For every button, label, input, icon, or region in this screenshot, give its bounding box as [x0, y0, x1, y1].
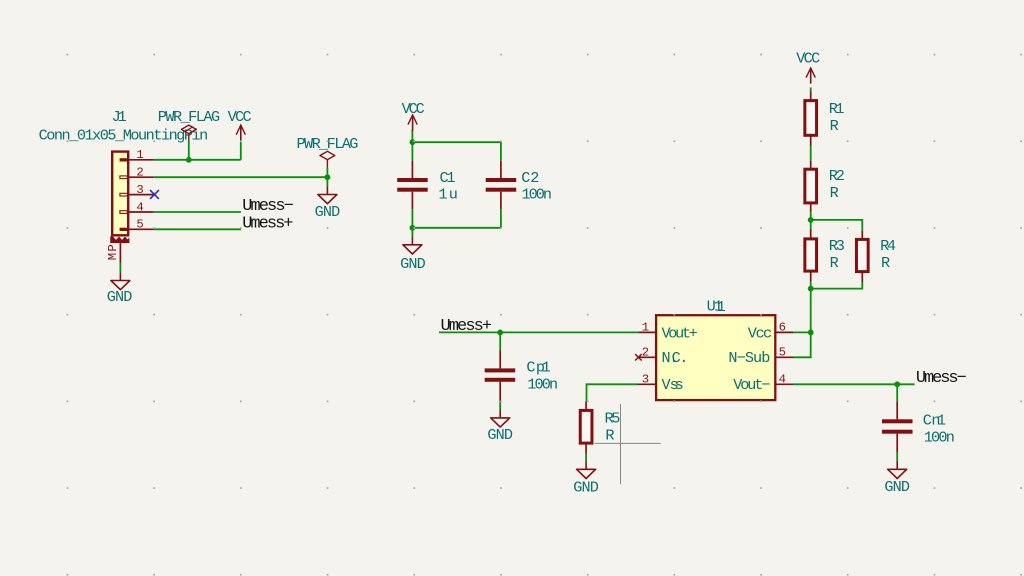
wire J1 pin2 to PWR_FLAG/GND node — [154, 176, 328, 178]
wire J1 pin4 to Umess- label — [154, 211, 241, 213]
wire R5 bottom to GND — [585, 454, 587, 461]
node GND / C1 / C2 — [410, 225, 416, 231]
svg-text:N.C.: N.C. — [662, 349, 689, 367]
capacitor C2 — [486, 161, 517, 209]
J1 pin 3 — [120, 193, 154, 196]
svg-text:VCC: VCC — [402, 100, 425, 118]
svg-text:Umess+: Umess+ — [441, 317, 493, 336]
U1 pin 4 — [775, 373, 793, 387]
J1 pin 1 — [120, 158, 154, 161]
ground under J1 — [111, 272, 130, 290]
svg-text:GND: GND — [315, 203, 341, 221]
node Umess+ / Cp1 — [497, 330, 503, 336]
J1 pin 5 — [120, 228, 154, 231]
svg-text:1: 1 — [136, 148, 143, 162]
power flag PWR_FLAG at J1 pin1 — [181, 125, 196, 141]
ground under Cp1 — [491, 410, 510, 428]
wire C1 top to C2 top — [412, 142, 501, 161]
resistor R4 — [856, 231, 868, 282]
wire Umess+ to U1 pin1 — [439, 331, 639, 333]
svg-text:R1: R1 — [829, 100, 845, 118]
wire Cn1 bottom to GND — [896, 452, 898, 461]
svg-text:R: R — [881, 254, 890, 272]
wire J1 pin5 to Umess+ label — [154, 228, 241, 230]
power symbol VCC — [408, 115, 417, 131]
U1 pin 3 — [638, 373, 657, 387]
svg-text:6: 6 — [779, 321, 786, 335]
capacitor Cp1 — [485, 350, 516, 401]
wire U1 pin4 to Umess- label — [793, 383, 915, 385]
svg-text:Vout−: Vout− — [733, 376, 770, 394]
resistor R1 — [805, 92, 817, 146]
node Umess- / Cn1 — [894, 381, 900, 387]
svg-text:R4: R4 — [880, 237, 896, 255]
wire R3 bottom down to U1 pin6 node — [810, 282, 812, 333]
svg-text:GND: GND — [573, 479, 599, 497]
wire Cp1 bottom to GND — [499, 401, 501, 410]
wire C1 bottom to GND — [411, 209, 413, 236]
node J1 pin1 / PWR_FLAG — [186, 157, 192, 163]
svg-text:C2: C2 — [521, 169, 539, 187]
node VCC / C1 / C2 — [410, 139, 416, 145]
svg-text:3: 3 — [642, 373, 649, 387]
svg-text:100n: 100n — [527, 376, 558, 394]
capacitor Cn1 — [882, 402, 913, 453]
node U1 pin6 / pin5 — [808, 330, 814, 336]
J1 pin 4 — [120, 211, 154, 214]
U1 pin 6 — [775, 321, 793, 335]
wire C1 bottom to C2 bottom — [412, 209, 501, 228]
svg-text:Umess−: Umess− — [242, 197, 294, 216]
svg-text:R: R — [830, 184, 839, 202]
svg-text:VCC: VCC — [796, 49, 820, 67]
svg-text:PWR_FLAG: PWR_FLAG — [158, 108, 220, 126]
svg-text:2: 2 — [136, 166, 143, 180]
ground under C1 — [403, 236, 422, 254]
svg-text:1u: 1u — [438, 186, 457, 204]
node R3 / R4 bottom — [808, 286, 814, 292]
svg-text:J1: J1 — [112, 108, 127, 126]
svg-text:PWR_FLAG: PWR_FLAG — [297, 135, 359, 153]
wire node to Cn1 — [896, 384, 898, 401]
power flag PWR_FLAG right — [320, 151, 335, 167]
wire U1 pin3 to R5 — [587, 384, 638, 401]
wire right PWR_FLAG stem — [326, 168, 328, 187]
wire VCC to R1 — [810, 87, 812, 91]
svg-text:4: 4 — [136, 200, 143, 214]
capacitor C1 — [397, 161, 428, 209]
resistor R5 — [580, 402, 592, 454]
svg-text:Cn1: Cn1 — [923, 411, 946, 429]
wire VCC to C1 top — [411, 130, 413, 161]
svg-text:MP: MP — [106, 244, 120, 260]
no-connect x on U1 pin 2 — [635, 354, 641, 360]
svg-text:5: 5 — [779, 346, 786, 360]
ground under R5 — [577, 461, 596, 479]
wire R2 to R3 through node — [810, 212, 812, 229]
wire R4 bottom to node — [811, 282, 863, 289]
wire J1 pin1 to VCC corner — [154, 159, 241, 161]
svg-text:Umess−: Umess− — [916, 369, 967, 388]
J1 MP pin — [119, 243, 121, 262]
power symbol VCC — [806, 68, 815, 84]
svg-text:R: R — [605, 426, 614, 444]
svg-text:2: 2 — [642, 346, 649, 360]
svg-text:Vss: Vss — [662, 376, 684, 394]
svg-text:R2: R2 — [829, 167, 845, 185]
resistor R3 — [805, 229, 817, 282]
wire J1 MP pin to GND — [119, 263, 121, 273]
svg-text:R: R — [830, 117, 839, 135]
svg-text:Vout+: Vout+ — [662, 324, 698, 342]
U1 pin 1 — [639, 321, 657, 335]
U1 pin 2 — [639, 346, 656, 360]
wire VCC corner up — [240, 142, 242, 160]
ground under Cn1 — [888, 461, 907, 479]
svg-text:R5: R5 — [605, 409, 621, 427]
ground at right PWR_FLAG — [318, 186, 337, 204]
svg-text:R3: R3 — [829, 237, 845, 255]
node R2 / R3 / R4 — [808, 217, 814, 223]
svg-text:5: 5 — [136, 218, 143, 232]
svg-text:Cp1: Cp1 — [526, 358, 550, 376]
svg-text:Vcc: Vcc — [748, 324, 772, 342]
resistor R2 — [805, 161, 817, 212]
label U1 — [707, 298, 726, 316]
svg-text:GND: GND — [107, 288, 133, 306]
wire U1 pin6 to node — [793, 331, 811, 333]
svg-text:N−Sub: N−Sub — [728, 349, 770, 367]
svg-text:Umess+: Umess+ — [242, 214, 293, 233]
wire node to R4 top — [811, 220, 863, 231]
svg-text:R: R — [830, 254, 839, 272]
wire junction to Cp1 — [499, 332, 501, 350]
svg-text:VCC: VCC — [228, 108, 252, 126]
cursor crosshair — [595, 404, 661, 484]
power symbol VCC at J1 — [236, 125, 245, 141]
svg-text:C1: C1 — [440, 169, 456, 187]
U1 pin 5 — [775, 346, 793, 360]
no-connect X on J1 pin 3 — [150, 190, 159, 199]
svg-text:4: 4 — [779, 373, 786, 387]
J1 pin 2 — [120, 176, 154, 179]
svg-text:100n: 100n — [522, 186, 553, 204]
svg-text:1: 1 — [717, 298, 726, 316]
svg-text:3: 3 — [136, 183, 143, 197]
wire U1 pin5 up to pin6 node — [793, 332, 811, 357]
svg-text:100n: 100n — [924, 429, 955, 447]
svg-text:GND: GND — [487, 426, 513, 444]
svg-text:1: 1 — [642, 321, 649, 335]
svg-text:GND: GND — [884, 478, 910, 496]
svg-text:GND: GND — [400, 255, 426, 273]
wire pin1 junction up to PWR_FLAG — [188, 142, 190, 160]
node J1 pin2 / PWR_FLAG / GND — [325, 174, 331, 180]
wire R1 to R2 — [810, 146, 812, 161]
